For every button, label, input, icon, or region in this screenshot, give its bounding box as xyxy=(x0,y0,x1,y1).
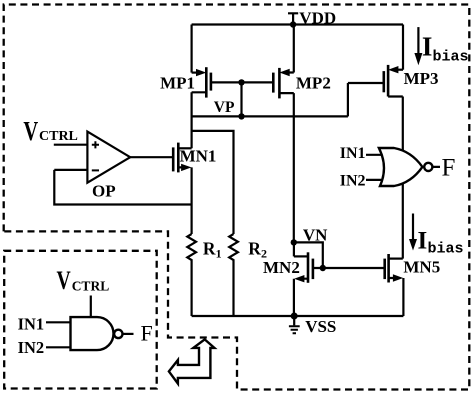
svg-text:MN5: MN5 xyxy=(403,257,440,276)
svg-text:I: I xyxy=(422,31,433,61)
svg-text:IN1: IN1 xyxy=(18,314,45,333)
svg-text:VSS: VSS xyxy=(305,317,336,336)
svg-text:IN1: IN1 xyxy=(340,145,366,162)
svg-text:CTRL: CTRL xyxy=(39,129,78,144)
svg-text:VDD: VDD xyxy=(299,8,336,27)
svg-text:F: F xyxy=(141,321,153,346)
svg-text:IN2: IN2 xyxy=(18,338,45,357)
svg-text:R: R xyxy=(203,238,216,258)
svg-text:IN2: IN2 xyxy=(340,172,366,189)
svg-text:F: F xyxy=(442,154,456,181)
svg-text:MP3: MP3 xyxy=(404,69,439,88)
svg-text:MN1: MN1 xyxy=(180,147,217,166)
svg-text:VN: VN xyxy=(303,225,328,244)
svg-text:OP: OP xyxy=(92,182,116,201)
svg-text:R: R xyxy=(248,238,261,258)
svg-text:I: I xyxy=(418,227,428,254)
svg-text:CTRL: CTRL xyxy=(72,279,110,294)
svg-text:bias: bias xyxy=(428,241,464,258)
svg-text:V: V xyxy=(57,266,71,295)
svg-text:MP2: MP2 xyxy=(296,74,331,93)
svg-text:VP: VP xyxy=(214,99,235,116)
svg-text:1: 1 xyxy=(216,247,222,261)
svg-text:bias: bias xyxy=(433,49,469,66)
svg-text:MP1: MP1 xyxy=(160,73,195,92)
svg-text:V: V xyxy=(23,116,38,146)
svg-text:MN2: MN2 xyxy=(263,258,300,277)
